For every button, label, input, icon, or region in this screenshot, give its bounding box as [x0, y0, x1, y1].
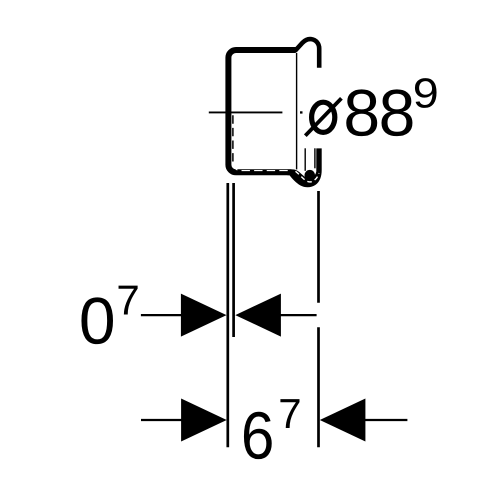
svg-text:7: 7 — [116, 277, 139, 324]
dimension 6.7 left-pointing arrowhead — [320, 399, 366, 442]
centerline — [209, 111, 283, 113]
centerline dot — [300, 111, 303, 113]
dimension 6.7 right leader — [365, 419, 408, 421]
o-ring seal dot — [305, 170, 316, 181]
hidden edge dashed over hook (white) — [296, 171, 319, 182]
svg-text:88: 88 — [343, 75, 415, 149]
diameter symbol slash — [305, 98, 341, 135]
label 0 superscript 7 — [116, 277, 139, 324]
svg-text:6: 6 — [241, 398, 275, 473]
thin inner edge of groove left — [304, 148, 306, 171]
top hook (rim curl) — [292, 39, 319, 68]
thin edge line right face — [296, 53, 298, 169]
dimension 0.7 right leader — [280, 314, 316, 316]
dimension 0.7 left-pointing arrowhead — [235, 294, 281, 337]
hidden inner edge dashed vertical — [232, 115, 234, 163]
extension line right upper segment — [317, 191, 320, 303]
cap body C-profile thick outline — [228, 50, 295, 172]
svg-text:9: 9 — [413, 69, 439, 116]
label 88 superscript 9 — [413, 69, 439, 116]
dimension 0.7 left leader — [141, 314, 182, 316]
hidden inner edge dashed bottom (white over stroke) — [234, 163, 292, 171]
dimension 0.7 right-pointing arrowhead — [181, 294, 227, 337]
dimension 6.7 right-pointing arrowhead — [181, 399, 227, 442]
extension line right lower segment — [317, 327, 320, 447]
diameter symbol ellipse — [312, 102, 335, 132]
svg-text:7: 7 — [278, 390, 301, 437]
bottom hook (rim curl with seal groove, filled) — [288, 148, 322, 187]
thin inner edge of groove right — [314, 148, 316, 168]
dimension 6.7 left leader — [141, 419, 182, 421]
svg-text:0: 0 — [79, 283, 116, 357]
extension line left (outer wall projection) — [226, 183, 229, 447]
label 6 superscript 7 — [278, 390, 301, 437]
extension line inner wall projection — [232, 183, 235, 337]
